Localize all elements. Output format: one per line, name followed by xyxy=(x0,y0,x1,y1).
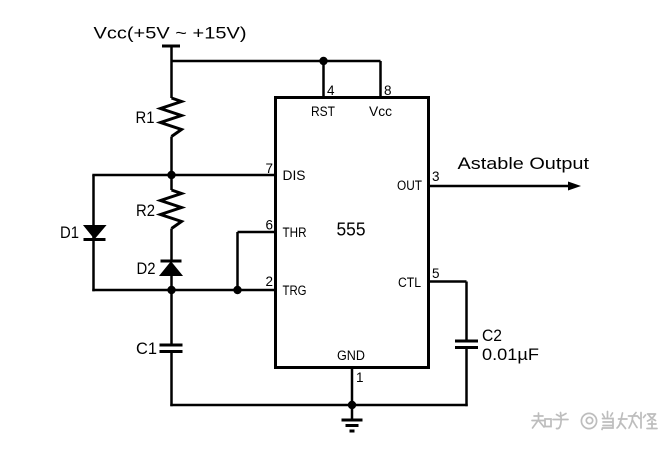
node junction on Vcc rail xyxy=(319,57,327,65)
svg-text:OUT: OUT xyxy=(397,178,422,193)
svg-text:0.01µF: 0.01µF xyxy=(482,345,539,364)
svg-text:5: 5 xyxy=(432,266,440,281)
watermark xyxy=(532,412,657,430)
svg-text:R1: R1 xyxy=(136,108,155,127)
capacitor C2 xyxy=(455,340,478,343)
svg-text:7: 7 xyxy=(265,161,273,176)
svg-text:555: 555 xyxy=(337,220,366,240)
wire pin8 drop xyxy=(379,61,382,98)
wire THR vertical link xyxy=(236,232,239,290)
svg-text:2: 2 xyxy=(265,274,273,289)
zhi xyxy=(532,413,544,428)
svg-text:4: 4 xyxy=(327,83,335,98)
svg-text:CTL: CTL xyxy=(398,275,421,290)
wire top horizontal Vcc rail xyxy=(172,60,381,63)
svg-text:D1: D1 xyxy=(60,223,79,242)
hu xyxy=(553,413,568,429)
wire C2 to bottom rail xyxy=(465,348,468,407)
op IC 555 box U1 xyxy=(276,98,429,368)
node junction GND xyxy=(348,401,356,409)
wire left vertical (D1 branch) xyxy=(92,175,95,291)
Vcc power terminal xyxy=(162,45,180,48)
svg-text:TRG: TRG xyxy=(283,283,307,298)
node junction TRG at R branch xyxy=(167,286,175,294)
svg-text:Astable Output: Astable Output xyxy=(458,155,590,173)
svg-text:3: 3 xyxy=(432,169,440,184)
wire R2 to D2 xyxy=(170,229,173,263)
node junction DIS xyxy=(167,171,175,179)
wire DIS horizontal xyxy=(92,174,275,177)
svg-text:Vcc(+5V ~ +15V): Vcc(+5V ~ +15V) xyxy=(94,24,247,43)
svg-text:R2: R2 xyxy=(136,201,155,220)
svg-text:C2: C2 xyxy=(482,326,502,345)
wire Vcc terminal to R1 top xyxy=(170,47,173,99)
svg-text:THR: THR xyxy=(283,225,307,240)
wire R1 to DIS node xyxy=(170,137,173,191)
ground xyxy=(351,405,354,420)
svg-text:DIS: DIS xyxy=(283,168,306,183)
wire TRG horizontal xyxy=(92,289,275,292)
resistor R2 xyxy=(161,190,182,229)
wire THR horizontal xyxy=(238,231,276,234)
wire pin1 GND drop xyxy=(351,368,354,406)
svg-text:GND: GND xyxy=(337,348,365,363)
wire CTL horizontal xyxy=(429,280,467,283)
svg-text:D2: D2 xyxy=(137,259,156,278)
wire OUT arrow xyxy=(429,185,571,188)
capacitor C1 xyxy=(160,344,183,347)
diode D1 xyxy=(84,226,106,239)
wire bottom rail xyxy=(170,404,467,407)
node junction THR/TRG xyxy=(233,286,241,294)
svg-text:1: 1 xyxy=(356,370,364,385)
at sign xyxy=(581,413,596,428)
diode D2 xyxy=(161,260,182,263)
yao xyxy=(617,413,627,429)
wire pin4 drop xyxy=(322,61,325,98)
svg-text:6: 6 xyxy=(265,218,273,233)
wire CTL to C2 xyxy=(465,282,468,342)
svg-text:8: 8 xyxy=(384,83,392,98)
svg-text:Vcc: Vcc xyxy=(369,104,392,119)
svg-text:C1: C1 xyxy=(136,339,157,358)
resistor R1 xyxy=(161,98,182,137)
wire D2 to TRG node xyxy=(170,276,173,346)
xiao xyxy=(603,412,613,418)
guai xyxy=(638,413,646,429)
svg-text:RST: RST xyxy=(311,104,335,119)
wire C1 to bottom rail xyxy=(170,352,173,407)
